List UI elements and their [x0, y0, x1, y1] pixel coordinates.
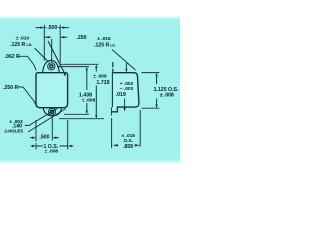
top tab hole outer: [48, 63, 55, 70]
dim 1.719: dimension line lower: [95, 86, 97, 115]
svg-text:± .015: ± .015: [97, 36, 111, 42]
svg-text:.250: .250: [76, 35, 86, 41]
dim .250: right tail: [64, 36, 67, 38]
dim 1.438: dimension line upper: [86, 71, 88, 90]
leader 2-holes second: [28, 109, 66, 132]
side view outline: [112, 73, 139, 112]
dim 1 O.S.: left extension line: [35, 143, 37, 150]
thickness .019 bottom arrowhead: [124, 108, 126, 112]
dim 1 O.S.: dimension line segments: [31, 145, 68, 147]
thickness .019 top arrow line: [125, 63, 127, 69]
dim .250: left arrowhead: [48, 36, 52, 38]
dim 1 O.S.: right tail: [71, 145, 73, 147]
bottom mounting tab: [43, 108, 61, 116]
dim .500 top: right extension line: [59, 25, 61, 63]
dim 1 O.S.: left arrowhead: [32, 145, 36, 147]
svg-text:± .008: ± .008: [82, 98, 96, 104]
dim .859: left arrowhead: [112, 144, 118, 146]
svg-text:.250 R: .250 R: [3, 85, 19, 91]
leader from .125 R left label to tab: [35, 48, 49, 62]
dim 1.719: top extension line: [60, 63, 99, 65]
dim .500 bottom: left extension line: [35, 120, 37, 142]
svg-text:± .008: ± .008: [160, 93, 174, 99]
top tab hole inner: [50, 65, 53, 68]
thickness .019 top arrowhead: [125, 69, 127, 73]
svg-text:.062 R: .062 R: [5, 54, 21, 60]
dim 1 O.S.: right extension line: [67, 120, 69, 150]
leader .250 R: [18, 87, 36, 105]
dim 1.125 O.S.: top arrowhead: [155, 73, 157, 77]
dim .250: left tail: [45, 36, 48, 38]
dim .500 bottom: left arrowhead: [32, 137, 36, 139]
dim 1.125 O.S.: bottom arrowhead: [155, 104, 157, 108]
dim .500 top: left arrowhead: [40, 26, 44, 28]
dim 1.719: bottom extension line: [59, 118, 104, 120]
svg-text:2-HOLES: 2-HOLES: [4, 128, 23, 133]
side view left edge: [111, 73, 113, 107]
dim 1.125 O.S.: dimension line lower: [156, 99, 158, 105]
dim 1.438: bottom extension line: [64, 113, 89, 115]
dim .500 bottom: right tail: [56, 137, 59, 139]
dim .500 bottom: right arrowhead: [52, 137, 56, 139]
dim .250: hole centerline extension: [51, 39, 53, 62]
dim 1.125 O.S.: bottom extension line: [142, 107, 160, 109]
dim 1.125 O.S.: dimension line upper: [156, 77, 158, 84]
dim .500 bottom: hole centerline extension: [51, 117, 53, 141]
dim 1.719: dimension line upper: [95, 69, 97, 72]
front view body outline: [36, 73, 68, 108]
svg-text:1.719: 1.719: [97, 80, 110, 86]
leader .062 R: [19, 56, 37, 70]
dim 1 O.S.: right arrowhead: [68, 145, 72, 147]
dim .859: left extension line: [110, 107, 112, 148]
leader from .125 R right label to side view corner: [112, 50, 136, 71]
side view top tab edge-on stub: [112, 62, 114, 73]
bottom tab hole outer: [49, 108, 56, 115]
thickness .019 bottom arrow line: [124, 99, 126, 109]
svg-text:.500: .500: [39, 134, 49, 140]
dim 1.438: bottom arrowhead: [86, 110, 88, 114]
bottom tab hole inner: [50, 110, 53, 113]
background paper: [0, 0, 180, 180]
dim 1.438: top extension line: [57, 66, 89, 68]
dim .500 bottom: left tail: [30, 137, 32, 139]
svg-text:.019: .019: [116, 92, 126, 98]
leader crossing tab to corner: [48, 41, 65, 75]
svg-text:± .010: ± .010: [16, 35, 30, 41]
dim 1.719: bottom arrowhead: [95, 115, 97, 119]
dim 1.719: top arrowhead: [95, 64, 97, 68]
dim .250: right arrowhead: [60, 36, 64, 38]
svg-text:± .008: ± .008: [93, 74, 107, 80]
leader .140 2-holes: [25, 108, 58, 125]
svg-text:.859: .859: [123, 144, 133, 150]
dim 1.438: dimension line lower: [86, 103, 88, 110]
dim 1.125 O.S.: top extension line: [142, 72, 160, 74]
dim 1.438: top arrowhead: [86, 67, 88, 71]
top mounting tab: [43, 60, 60, 72]
dim .500 top: right tail: [64, 27, 69, 29]
dim .500 top: right arrowhead: [60, 26, 64, 28]
svg-text:.500: .500: [47, 25, 57, 31]
cyan print band: [0, 0, 180, 180]
svg-text:± .008: ± .008: [45, 149, 59, 155]
dim .500 top: dimension line segments: [36, 27, 61, 29]
dim .859: right arrowhead: [135, 144, 141, 146]
corner mark top-right: [64, 74, 66, 76]
dim .500 top: left extension line: [43, 25, 45, 61]
dim .859: right extension line: [139, 110, 141, 147]
